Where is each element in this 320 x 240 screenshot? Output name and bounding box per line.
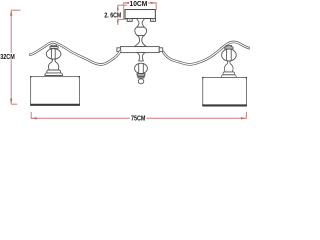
text mask boxes bbox=[0, 0, 148, 121]
stem (neck between canopy and urn) bbox=[136, 19, 144, 28]
canopy (ceiling plate) bbox=[125, 10, 155, 19]
hub finial cage ball bbox=[135, 63, 148, 73]
right arm bbox=[163, 42, 249, 65]
left candle cage ball bbox=[46, 49, 61, 59]
left shade top corner nubs bbox=[30, 76, 31, 78]
dim 32CM line bbox=[10, 10, 12, 104]
finial drop bbox=[138, 79, 144, 84]
left candle cap bbox=[51, 45, 57, 46]
dim 75CM ticks bbox=[30, 112, 32, 119]
hub bracket right bbox=[159, 48, 163, 52]
finial rings bbox=[137, 74, 145, 76]
svg-text:2. 6CM: 2. 6CM bbox=[104, 13, 121, 20]
left vase bbox=[48, 59, 58, 70]
dim 2.6CM bottom tick bbox=[118, 18, 126, 20]
left arm (outer line pair drawn as hollow stroke) bbox=[30, 42, 120, 64]
right vase base discs bbox=[223, 72, 235, 75]
canopy foot left bbox=[127, 19, 132, 22]
svg-text:32CM: 32CM bbox=[0, 54, 15, 61]
stem urn ball bbox=[135, 27, 147, 35]
hub bracket left bbox=[117, 48, 121, 52]
left shade bottom rim (thick) bbox=[30, 104, 80, 106]
right vase bbox=[221, 61, 236, 77]
dim 75CM line bbox=[31, 117, 246, 119]
left vase base discs bbox=[47, 70, 61, 73]
right candle cage ball bbox=[222, 49, 237, 61]
right shade bottom rim (thick) bbox=[202, 104, 247, 106]
hub bar (arm mounting bar) bbox=[120, 47, 159, 53]
right cage ribs bbox=[226, 50, 228, 61]
svg-text:10CM: 10CM bbox=[130, 1, 148, 8]
arrowheads 10CM bbox=[124, 2, 129, 4]
arrowheads 2.6CM bbox=[117, 5, 119, 9]
canopy foot right bbox=[151, 19, 156, 22]
stem neck and bell flare bbox=[134, 36, 146, 47]
svg-text:75CM: 75CM bbox=[131, 116, 146, 123]
arrowheads 32CM bbox=[10, 10, 12, 15]
hub finial funnel bbox=[137, 53, 145, 61]
dim 2.6CM top tick bbox=[118, 4, 127, 6]
dim 10CM ext ticks bbox=[123, 2, 125, 19]
dim 32CM ticks bbox=[11, 9, 20, 11]
right candle cap bbox=[226, 46, 232, 47]
finial cage ribs bbox=[138, 64, 140, 73]
dim 2.6CM line bbox=[117, 5, 119, 25]
left cage ribs bbox=[50, 49, 52, 59]
arrowheads 75CM bbox=[31, 117, 36, 119]
left drum shade bbox=[31, 77, 80, 105]
right shade top corner nubs bbox=[202, 77, 203, 79]
right drum shade bbox=[203, 78, 247, 106]
dim 10CM line bbox=[124, 2, 157, 4]
